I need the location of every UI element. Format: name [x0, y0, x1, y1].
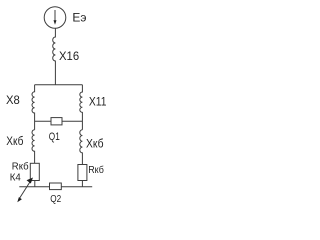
- svg-text:Rкб: Rкб: [12, 160, 29, 172]
- svg-text:Хкб: Хкб: [6, 135, 23, 148]
- resistor Rkb right (box): [78, 165, 87, 181]
- Q1 connector wire left: [35, 120, 51, 122]
- svg-text:Q2: Q2: [50, 192, 61, 204]
- breaker Q2 (box): [50, 183, 62, 190]
- resistor Rkb left (box): [30, 163, 39, 180]
- svg-text:Х16: Х16: [59, 48, 80, 63]
- top bus wire: [35, 84, 83, 86]
- right branch: wire + inductor X11 coil + wire down to Q1 tap: [80, 85, 83, 130]
- svg-text:К4: К4: [10, 172, 21, 183]
- left branch: inductor Xkb coil + wire to resistor Rkb: [32, 130, 35, 164]
- EMF source arrowhead: [54, 20, 57, 25]
- wire from source + inductor X16 coil + wire to top bus: [53, 28, 56, 85]
- svg-text:Хкб: Хкб: [86, 138, 104, 151]
- K4 arrowhead at tail: [17, 197, 22, 202]
- wire Rkb left to bottom bus: [34, 181, 36, 187]
- svg-text:Х8: Х8: [6, 93, 20, 108]
- svg-text:Rкб: Rкб: [88, 164, 104, 176]
- short-circuit arrow K4: shaft: [19, 180, 32, 200]
- Q1 connector wire right: [62, 120, 82, 122]
- breaker Q1 (box): [51, 118, 62, 125]
- EMF source arrow shaft: [54, 10, 56, 22]
- svg-text:Q1: Q1: [49, 131, 60, 143]
- bottom bus wire: [19, 186, 92, 188]
- svg-text:Еэ: Еэ: [72, 10, 86, 24]
- right branch: inductor Xkb coil + wire to resistor Rkb: [80, 130, 83, 165]
- wire Rkb right to bottom bus: [81, 181, 83, 187]
- K4 arrowhead at node: [27, 178, 34, 184]
- svg-text:Х11: Х11: [89, 96, 107, 109]
- left branch: wire + inductor X8 coil + wire down to Q1 tap: [32, 85, 35, 130]
- EMF source E: circle: [44, 7, 66, 29]
